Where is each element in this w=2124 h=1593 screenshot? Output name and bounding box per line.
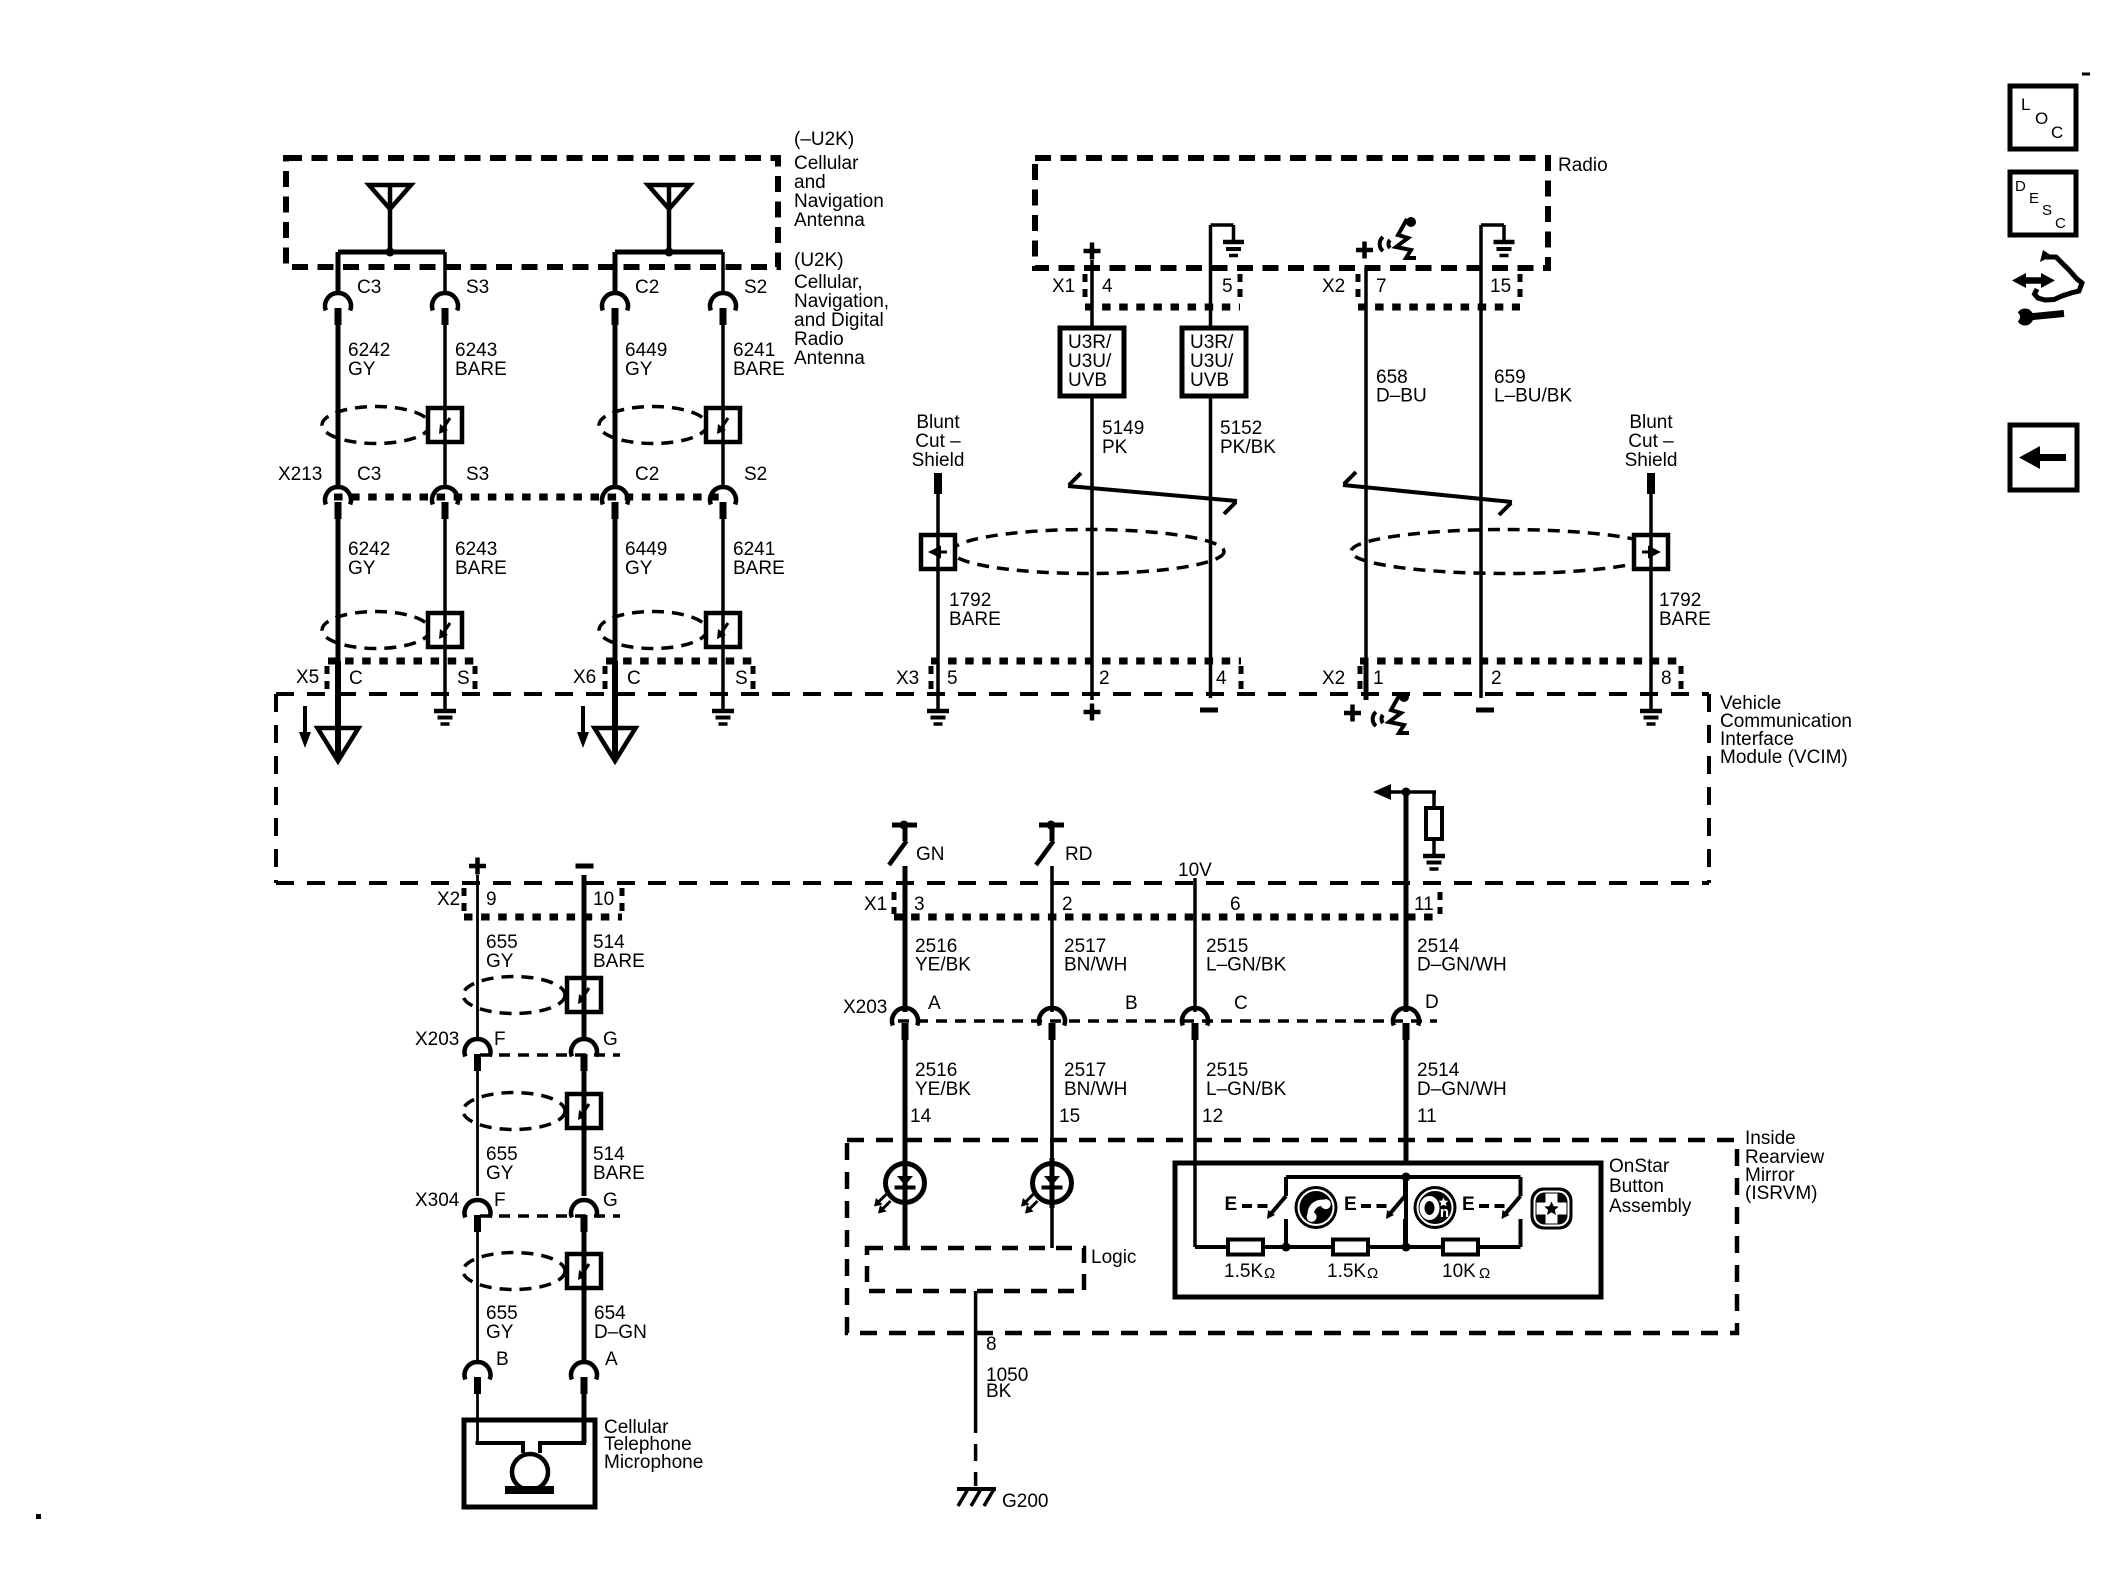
ground on S3 shield bbox=[434, 709, 456, 714]
svg-text:1792: 1792 bbox=[1659, 590, 1701, 611]
connector X6 right tick bbox=[751, 666, 756, 692]
wire S2 antenna to connector bbox=[721, 252, 725, 293]
svg-text:5152: 5152 bbox=[1220, 418, 1262, 439]
svg-text:E: E bbox=[1225, 1194, 1238, 1215]
svg-text:2514: 2514 bbox=[1417, 1060, 1460, 1081]
svg-text:S3: S3 bbox=[466, 464, 489, 485]
wire 2516 YE/BK seg2 bbox=[903, 1040, 908, 1163]
svg-text:S: S bbox=[735, 668, 748, 689]
svg-text:6241: 6241 bbox=[733, 539, 775, 560]
connector X203 F terminal bbox=[474, 1054, 481, 1071]
svg-text:X6: X6 bbox=[573, 667, 596, 688]
svg-text:S3: S3 bbox=[466, 277, 489, 298]
connector X213 S3 male terminal bbox=[442, 502, 449, 519]
radio X1 right tick bbox=[1238, 274, 1243, 300]
svg-text:PK/BK: PK/BK bbox=[1220, 437, 1276, 458]
X2 left tick bbox=[1358, 666, 1363, 692]
svg-text:L: L bbox=[2021, 95, 2030, 114]
svg-text:(–U2K): (–U2K) bbox=[794, 129, 854, 150]
svg-text:D–GN: D–GN bbox=[594, 1322, 647, 1343]
X2 mic tick left bbox=[462, 888, 467, 912]
svg-text:GY: GY bbox=[486, 951, 514, 972]
mic shield ellipse 1 bbox=[463, 977, 565, 1014]
shield ellipse pair 1 left bbox=[322, 407, 430, 444]
X2 mic tick right bbox=[620, 888, 625, 912]
wire X2-2 stub bbox=[1479, 661, 1483, 698]
svg-text:C: C bbox=[349, 668, 363, 689]
svg-text:Navigation: Navigation bbox=[794, 191, 884, 212]
connector X203 A arc bbox=[892, 1008, 918, 1025]
svg-text:7: 7 bbox=[1376, 276, 1387, 297]
shield ellipse pair 2 right bbox=[599, 612, 707, 649]
wire C2 into VCIM bbox=[612, 661, 618, 758]
svg-text:X5: X5 bbox=[296, 667, 319, 688]
connector X203 D terminal bbox=[1403, 1023, 1410, 1040]
svg-text:D–GN/WH: D–GN/WH bbox=[1417, 1079, 1507, 1100]
wire GN pin3 internal bbox=[903, 866, 908, 883]
connector X1 face dotted line bbox=[894, 914, 1440, 921]
radio X2 right tick bbox=[1518, 274, 1523, 300]
shield ellipse radio pair right bbox=[1351, 530, 1661, 574]
X2 right tick bbox=[1679, 666, 1684, 692]
svg-text:Cut –: Cut – bbox=[915, 431, 961, 452]
connector X203 A terminal bbox=[902, 1023, 909, 1040]
svg-text:GN: GN bbox=[916, 844, 945, 865]
node junction dot bus 2 bbox=[1402, 1243, 1411, 1252]
connector X213 C2 female arc bbox=[602, 487, 628, 504]
plus at VCIM X2 pin 9 bbox=[469, 864, 486, 869]
wire 6241 BARE segment 1 bbox=[721, 325, 725, 488]
svg-text:A: A bbox=[605, 1349, 618, 1370]
svg-text:6243: 6243 bbox=[455, 539, 497, 560]
svg-text:GY: GY bbox=[348, 359, 376, 380]
svg-text:1.5K: 1.5K bbox=[1327, 1261, 1366, 1282]
svg-text:B: B bbox=[1125, 993, 1138, 1014]
svg-text:X3: X3 bbox=[896, 668, 919, 689]
wire 6242 GY segment 1 bbox=[336, 325, 341, 488]
svg-text:BARE: BARE bbox=[733, 359, 785, 380]
svg-text:Shield: Shield bbox=[1625, 450, 1678, 471]
svg-text:Ω: Ω bbox=[1367, 1265, 1378, 1282]
svg-text:14: 14 bbox=[910, 1106, 932, 1127]
VCIM internal pickup GN bbox=[892, 823, 917, 828]
mic shield termination box 3 bbox=[567, 1254, 601, 1288]
mic shield glyph 3 bbox=[581, 1264, 589, 1276]
connector X5 right tick bbox=[473, 666, 478, 692]
stray mark top right bbox=[2082, 73, 2090, 76]
wire radio pin 5 stub bbox=[1209, 268, 1213, 328]
radio pin 4 plus sign bbox=[1084, 249, 1101, 254]
ground at X3 pin 5 bbox=[927, 709, 949, 714]
svg-text:2: 2 bbox=[1099, 668, 1110, 689]
svg-text:Blunt: Blunt bbox=[1629, 412, 1673, 433]
wire LED2 to logic bbox=[1050, 1208, 1054, 1248]
wire X3-2 stub bbox=[1090, 661, 1094, 700]
svg-text:C: C bbox=[2055, 215, 2066, 232]
svg-text:BN/WH: BN/WH bbox=[1064, 1079, 1127, 1100]
wire 2515 L-GN/BK seg2 bbox=[1193, 1040, 1197, 1163]
svg-text:10V: 10V bbox=[1178, 860, 1212, 881]
svg-text:GY: GY bbox=[348, 558, 376, 579]
svg-text:1792: 1792 bbox=[949, 590, 991, 611]
wire 2514 D-GN/WH seg2 bbox=[1404, 1040, 1409, 1177]
wire radio pin 7 stub bbox=[1364, 268, 1368, 447]
svg-text:U3U/: U3U/ bbox=[1190, 351, 1234, 372]
mic shield ellipse 3 bbox=[463, 1253, 565, 1290]
wire 1050 BK dashed segment bbox=[974, 1416, 978, 1486]
shield glyph blunt cut right bbox=[1648, 546, 1661, 559]
button switch upper bus bbox=[1286, 1175, 1521, 1179]
svg-text:5: 5 bbox=[947, 668, 958, 689]
svg-text:L–GN/BK: L–GN/BK bbox=[1206, 1079, 1287, 1100]
svg-text:BARE: BARE bbox=[455, 558, 507, 579]
wire into microphone B bbox=[476, 1394, 479, 1443]
wire RD pin2 internal bbox=[1050, 866, 1054, 883]
svg-text:2515: 2515 bbox=[1206, 1060, 1248, 1081]
antenna 2 feed bar wire bbox=[615, 250, 723, 255]
connector X5 face dotted line bbox=[328, 658, 477, 665]
svg-text:X1: X1 bbox=[864, 894, 887, 915]
in-line connector S3 male terminal bbox=[442, 308, 449, 325]
svg-text:U3R/: U3R/ bbox=[1190, 332, 1234, 353]
stray mark bottom left bbox=[36, 1514, 41, 1519]
X3 left tick bbox=[929, 666, 934, 692]
wire C3 into VCIM bbox=[335, 661, 341, 758]
shield arrow glyph on S3 bbox=[442, 418, 450, 430]
svg-text:655: 655 bbox=[486, 932, 518, 953]
wire X3-5 to ground bbox=[936, 661, 940, 711]
X1 tick left bbox=[892, 892, 897, 914]
connector X213 S2 male terminal bbox=[720, 502, 727, 519]
svg-text:YE/BK: YE/BK bbox=[915, 955, 971, 976]
svg-text:GY: GY bbox=[486, 1163, 514, 1184]
DESC reference box bbox=[2010, 172, 2076, 235]
connector X203 F arc bbox=[464, 1039, 490, 1056]
svg-text:(ISRVM): (ISRVM) bbox=[1745, 1183, 1817, 1204]
wire pin 12 into assembly bbox=[1193, 1163, 1197, 1247]
connector X3 face dotted line bbox=[931, 658, 1241, 665]
svg-text:6243: 6243 bbox=[455, 340, 497, 361]
svg-text:X213: X213 bbox=[278, 464, 322, 485]
node antenna 1 junction dot bbox=[386, 248, 395, 257]
mic connector A terminal bbox=[581, 1377, 588, 1394]
svg-text:GY: GY bbox=[625, 359, 653, 380]
wire 659 L-BU/BK bbox=[1479, 447, 1483, 661]
shield arrow glyph 2 on S2 bbox=[720, 623, 728, 635]
switch SW1 phone bbox=[1284, 1177, 1288, 1196]
in-line connector S2 female arc bbox=[710, 293, 736, 310]
connector X213 C2 male terminal bbox=[612, 502, 619, 519]
radio dashed enclosure box bbox=[1035, 158, 1548, 268]
shield termination box 2 on S3 bbox=[428, 613, 462, 647]
off-page hollow arrow C3 bbox=[318, 728, 359, 761]
svg-text:15: 15 bbox=[1059, 1106, 1080, 1127]
wire radio pin 15 stub bbox=[1479, 268, 1483, 447]
svg-text:4: 4 bbox=[1216, 668, 1227, 689]
svg-text:A: A bbox=[928, 993, 941, 1014]
svg-text:G: G bbox=[603, 1029, 618, 1050]
mic shield glyph 1 bbox=[581, 988, 589, 1000]
svg-text:RD: RD bbox=[1065, 844, 1092, 865]
svg-text:Radio: Radio bbox=[1558, 155, 1608, 176]
shield termination box on S2 bbox=[706, 408, 740, 442]
svg-text:n: n bbox=[1440, 1204, 1449, 1221]
svg-text:655: 655 bbox=[486, 1303, 518, 1324]
phone button icon bbox=[1295, 1186, 1338, 1229]
off-page hollow arrow C2 bbox=[595, 728, 636, 761]
antenna assembly dashed enclosure box bbox=[286, 158, 778, 267]
svg-text:PK: PK bbox=[1102, 437, 1128, 458]
svg-text:11: 11 bbox=[1417, 1106, 1437, 1127]
svg-text:15: 15 bbox=[1490, 276, 1511, 297]
connector X304 face dashed line bbox=[480, 1214, 620, 1218]
svg-text:S2: S2 bbox=[744, 464, 767, 485]
button resistor bus bbox=[1195, 1245, 1228, 1249]
wire radio pin 4 stub bbox=[1090, 260, 1094, 328]
wire LED1 to logic bbox=[903, 1208, 908, 1248]
wire 6243 BARE segment 1 bbox=[443, 325, 447, 488]
shield termination box blunt cut left bbox=[921, 535, 955, 569]
connector X5 left tick bbox=[325, 666, 330, 692]
shield ellipse pair 2 left bbox=[322, 612, 430, 649]
wire 2515 L-GN/BK seg1 bbox=[1193, 883, 1197, 1012]
resistor R2 1.5K bbox=[1333, 1240, 1368, 1255]
node antenna 2 junction dot bbox=[665, 248, 674, 257]
wire 6243 BARE segment 2 bbox=[443, 519, 447, 711]
svg-text:and: and bbox=[794, 172, 826, 193]
svg-text:C3: C3 bbox=[357, 277, 381, 298]
mic shield glyph 2 bbox=[581, 1104, 589, 1116]
radio X1 tick bbox=[1083, 274, 1088, 300]
wire S3 antenna to connector bbox=[443, 252, 447, 293]
wire pin15 to LED2 bbox=[1050, 1140, 1054, 1163]
mic shield termination box 2 bbox=[567, 1094, 601, 1128]
svg-text:Button: Button bbox=[1609, 1176, 1664, 1197]
wire pin 11 into assembly bbox=[1404, 1177, 1408, 1247]
radio X2 tick bbox=[1356, 274, 1361, 300]
svg-text:4: 4 bbox=[1102, 276, 1113, 297]
wire 2517 BN/WH seg2 bbox=[1050, 1040, 1054, 1163]
svg-text:Module (VCIM): Module (VCIM) bbox=[1720, 747, 1848, 768]
ground at X2 pin 8 bbox=[1640, 709, 1662, 714]
direction arrow at X6 bbox=[581, 706, 585, 734]
blunt cut wire right bbox=[1647, 473, 1655, 494]
node junction dot bus 1 bbox=[1282, 1243, 1291, 1252]
svg-text:Navigation,: Navigation, bbox=[794, 291, 889, 312]
svg-text:6449: 6449 bbox=[625, 340, 667, 361]
connector X203 C arc bbox=[1182, 1008, 1208, 1025]
svg-text:C2: C2 bbox=[635, 277, 659, 298]
svg-text:10: 10 bbox=[593, 889, 614, 910]
svg-text:UVB: UVB bbox=[1190, 370, 1229, 391]
svg-text:11: 11 bbox=[1414, 894, 1434, 915]
shield termination box blunt cut right bbox=[1634, 535, 1668, 569]
connector X203 D arc bbox=[1393, 1008, 1419, 1025]
svg-text:(U2K): (U2K) bbox=[794, 250, 844, 271]
svg-text:E: E bbox=[1462, 1194, 1475, 1215]
wire 2516 YE/BK seg1 bbox=[903, 883, 908, 1012]
svg-text:X203: X203 bbox=[843, 997, 887, 1018]
svg-text:E: E bbox=[2029, 190, 2039, 207]
svg-text:F: F bbox=[494, 1029, 506, 1050]
svg-text:Cut –: Cut – bbox=[1628, 431, 1674, 452]
wire 1050 BK from logic bbox=[974, 1291, 978, 1416]
svg-text:10K: 10K bbox=[1442, 1261, 1476, 1282]
connector X213 C3 male terminal bbox=[335, 502, 342, 519]
wire X3-4 stub bbox=[1209, 661, 1213, 698]
harness routing icon bbox=[2035, 257, 2083, 300]
svg-text:3: 3 bbox=[914, 894, 925, 915]
connector X203 B arc bbox=[1039, 1008, 1065, 1025]
svg-text:S: S bbox=[457, 668, 470, 689]
svg-text:Inside: Inside bbox=[1745, 1128, 1796, 1149]
wire 514 BARE seg1 bbox=[582, 875, 587, 1039]
svg-text:2516: 2516 bbox=[915, 1060, 957, 1081]
radio pin 7 phone talk icon bbox=[1380, 217, 1416, 258]
svg-text:U3R/: U3R/ bbox=[1068, 332, 1112, 353]
connector X1 radio face dotted line bbox=[1085, 304, 1240, 311]
wire 514 BARE seg2 bbox=[582, 1071, 587, 1196]
radio pin 7 plus sign bbox=[1356, 248, 1373, 253]
LED indicator 1 bbox=[886, 1164, 925, 1203]
svg-text:Antenna: Antenna bbox=[794, 210, 865, 231]
svg-text:D–BU: D–BU bbox=[1376, 386, 1427, 407]
wire 6241 BARE segment 2 bbox=[721, 519, 725, 711]
connector X2 radio face dotted line bbox=[1358, 304, 1520, 311]
svg-text:Ω: Ω bbox=[1264, 1265, 1275, 1282]
twisted pair cut symbol left bbox=[1068, 486, 1237, 501]
in-line connector C3 male terminal bbox=[335, 308, 342, 325]
phone talk icon at X2 pin 1 bbox=[1373, 692, 1409, 733]
back arrow reference box bbox=[2010, 425, 2077, 490]
svg-text:Blunt: Blunt bbox=[916, 412, 960, 433]
shield ellipse radio pair left bbox=[952, 530, 1224, 574]
minus at X3 pin 4 bbox=[1200, 708, 1218, 713]
svg-text:C: C bbox=[2051, 123, 2063, 142]
svg-text:5: 5 bbox=[1222, 276, 1233, 297]
wire 655 GY seg1 bbox=[476, 875, 479, 1039]
svg-text:2517: 2517 bbox=[1064, 1060, 1106, 1081]
blunt cut wire left bbox=[934, 473, 942, 494]
logic dashed box bbox=[867, 1248, 1084, 1291]
svg-text:2: 2 bbox=[1491, 668, 1502, 689]
in-line connector C2 male terminal bbox=[612, 308, 619, 325]
shield termination box on S3 bbox=[428, 408, 462, 442]
connector X203 mic face dashed line bbox=[480, 1053, 620, 1057]
svg-text:O: O bbox=[2035, 109, 2048, 128]
svg-text:L–BU/BK: L–BU/BK bbox=[1494, 386, 1572, 407]
shield arrow glyph 2 on S3 bbox=[442, 623, 450, 635]
shield glyph blunt cut left bbox=[928, 546, 941, 559]
svg-text:655: 655 bbox=[486, 1144, 518, 1165]
wire 658 D-BU bbox=[1364, 447, 1368, 661]
connector X304 G terminal bbox=[581, 1215, 588, 1232]
svg-text:UVB: UVB bbox=[1068, 370, 1107, 391]
wire pin14 to LED1 bbox=[903, 1140, 908, 1163]
wire 5152 PK/BK bbox=[1209, 396, 1213, 661]
wire X2-8 to ground bbox=[1649, 661, 1653, 711]
svg-text:U3U/: U3U/ bbox=[1068, 351, 1112, 372]
resistor R3 10K bbox=[1443, 1240, 1478, 1255]
wire 2514 D-GN/WH seg1 bbox=[1404, 883, 1409, 1012]
wire pin11 internal bbox=[1404, 792, 1409, 883]
mic connector B arc bbox=[464, 1362, 490, 1379]
ground on S2 shield bbox=[712, 709, 734, 714]
RPO option box U3R/U3U/UVB on wire 5149 bbox=[1060, 328, 1124, 396]
svg-text:X2: X2 bbox=[1322, 276, 1345, 297]
VCIM internal left arrow node bbox=[1373, 784, 1391, 800]
svg-text:GY: GY bbox=[625, 558, 653, 579]
svg-text:5149: 5149 bbox=[1102, 418, 1144, 439]
svg-text:6242: 6242 bbox=[348, 340, 390, 361]
mic connector A arc bbox=[571, 1362, 597, 1379]
connector X304 G arc bbox=[571, 1200, 597, 1217]
connector X213 face dotted line bbox=[334, 494, 727, 501]
svg-text:1: 1 bbox=[1373, 668, 1384, 689]
svg-text:Radio: Radio bbox=[794, 329, 844, 350]
svg-text:BARE: BARE bbox=[593, 951, 645, 972]
svg-text:6449: 6449 bbox=[625, 539, 667, 560]
connector X213 S2 female arc bbox=[710, 487, 736, 504]
in-line connector C3 female arc bbox=[325, 293, 351, 310]
svg-text:X1: X1 bbox=[1052, 276, 1075, 297]
resistor R1 1.5K bbox=[1228, 1240, 1263, 1255]
wire 6449 GY segment 1 bbox=[613, 325, 618, 488]
svg-text:C: C bbox=[627, 668, 641, 689]
microphone element circle bbox=[512, 1454, 548, 1490]
connector X2 mic face dotted line bbox=[464, 914, 622, 921]
svg-text:6241: 6241 bbox=[733, 340, 775, 361]
VCIM internal resistor to ground bbox=[1432, 792, 1436, 808]
svg-text:L–GN/BK: L–GN/BK bbox=[1206, 955, 1287, 976]
OnStar button assembly box bbox=[1175, 1163, 1601, 1297]
svg-text:8: 8 bbox=[1661, 668, 1672, 689]
antenna 2 symbol bbox=[667, 185, 672, 252]
svg-text:BK: BK bbox=[986, 1381, 1012, 1402]
connector X6 left tick bbox=[603, 666, 608, 692]
svg-text:D–GN/WH: D–GN/WH bbox=[1417, 955, 1507, 976]
wire 655 GY seg3 bbox=[476, 1232, 479, 1362]
svg-text:BN/WH: BN/WH bbox=[1064, 955, 1127, 976]
svg-text:514: 514 bbox=[593, 932, 625, 953]
svg-text:12: 12 bbox=[1202, 1106, 1223, 1127]
X3 right tick bbox=[1239, 666, 1244, 692]
in-line connector S3 female arc bbox=[432, 293, 458, 310]
svg-text:S: S bbox=[2042, 202, 2052, 219]
wire 2517 BN/WH seg1 bbox=[1050, 883, 1054, 1012]
LED indicator 2 bbox=[1033, 1164, 1072, 1203]
svg-text:G: G bbox=[603, 1190, 618, 1211]
mic connector B terminal bbox=[474, 1377, 481, 1394]
svg-text:BARE: BARE bbox=[1659, 609, 1711, 630]
minus at X2 pin 2 bbox=[1476, 708, 1494, 713]
svg-text:and Digital: and Digital bbox=[794, 310, 884, 331]
svg-text:6242: 6242 bbox=[348, 539, 390, 560]
svg-text:D: D bbox=[2015, 178, 2026, 195]
switch SW3 emergency bbox=[1519, 1177, 1523, 1196]
svg-text:G200: G200 bbox=[1002, 1491, 1048, 1512]
ISRVM dashed enclosure box bbox=[847, 1140, 1737, 1333]
cellular telephone microphone box bbox=[464, 1420, 595, 1507]
svg-text:F: F bbox=[494, 1190, 506, 1211]
connector X304 F terminal bbox=[474, 1215, 481, 1232]
shield termination box 2 on S2 bbox=[706, 613, 740, 647]
svg-text:S2: S2 bbox=[744, 277, 767, 298]
wire X2-1 stub bbox=[1364, 661, 1369, 700]
connector X203 buttons face dashed line bbox=[898, 1019, 1437, 1023]
svg-text:D: D bbox=[1425, 992, 1439, 1013]
direction arrow at X5 bbox=[303, 706, 307, 734]
